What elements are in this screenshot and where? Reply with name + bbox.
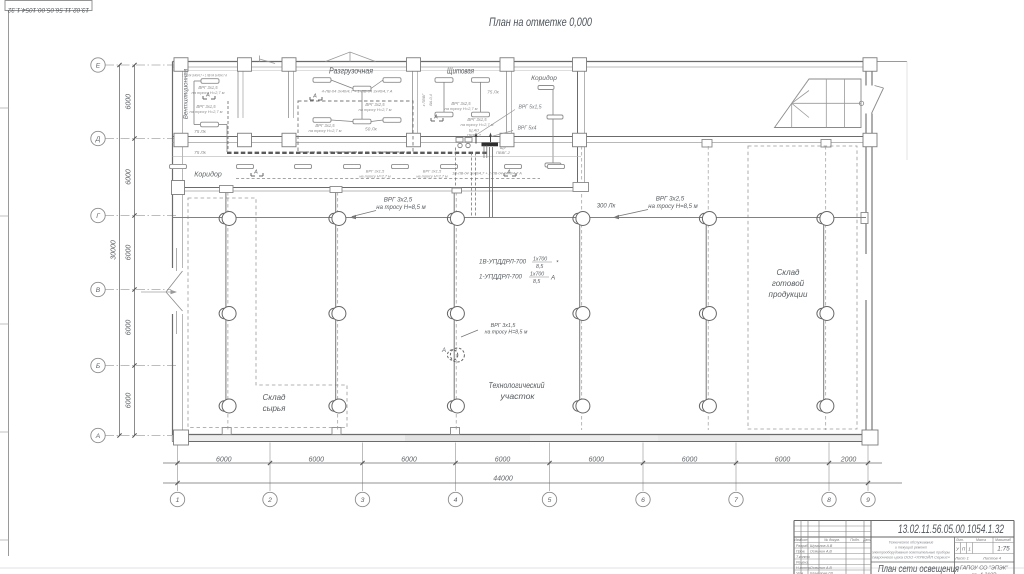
svg-text:А: А bbox=[95, 433, 101, 440]
svg-text:Масштаб: Масштаб bbox=[995, 538, 1011, 542]
svg-text:6000: 6000 bbox=[126, 393, 133, 409]
svg-text:на тросу Н=2,7 м: на тросу Н=2,7 м bbox=[190, 109, 223, 114]
svg-text:А: А bbox=[253, 170, 258, 176]
svg-text:продукции: продукции bbox=[769, 290, 808, 299]
svg-text:А: А bbox=[433, 115, 438, 121]
svg-text:6000: 6000 bbox=[308, 457, 324, 464]
svg-text:х ПВВГ: х ПВВГ bbox=[422, 93, 426, 108]
svg-text:8,5: 8,5 bbox=[536, 264, 543, 270]
svg-text:9: 9 bbox=[866, 497, 870, 504]
svg-text:Листов 4: Листов 4 bbox=[982, 556, 1002, 561]
svg-text:1:75: 1:75 bbox=[997, 546, 1010, 553]
svg-text:на тросу Н=8,5 м: на тросу Н=8,5 м bbox=[376, 205, 425, 211]
svg-text:ВРГ 5х4: ВРГ 5х4 bbox=[518, 126, 537, 132]
svg-text:75 Лк: 75 Лк bbox=[194, 150, 207, 155]
svg-text:1 ЛВ-04 3х40/4,7 + 1 ЛВ-04 3х4: 1 ЛВ-04 3х40/4,7 + 1 ЛВ-04 3х40/4,7 А bbox=[182, 73, 227, 78]
svg-text:План сети освещения: План сети освещения bbox=[878, 564, 960, 574]
svg-text:П: П bbox=[962, 547, 966, 552]
svg-text:ВРГ 5х1,5: ВРГ 5х1,5 bbox=[518, 105, 541, 111]
svg-text:13.02.11.56.05.00.1054.1.32: 13.02.11.56.05.00.1054.1.32 bbox=[7, 6, 89, 13]
svg-text:*: * bbox=[556, 260, 559, 267]
svg-text:Коридор: Коридор bbox=[194, 171, 222, 179]
svg-text:Масса: Масса bbox=[976, 538, 986, 542]
svg-text:на тросу Н=2,7 м: на тросу Н=2,7 м bbox=[192, 90, 225, 95]
svg-text:8,5: 8,5 bbox=[533, 279, 540, 285]
svg-text:Разгрузочная: Разгрузочная bbox=[329, 67, 374, 76]
svg-text:Лист: Лист bbox=[799, 538, 809, 542]
svg-text:Реценз.: Реценз. bbox=[796, 560, 809, 564]
svg-text:1х700: 1х700 bbox=[530, 272, 544, 278]
svg-text:Т.контр.: Т.контр. bbox=[796, 555, 811, 559]
svg-text:Шумилов А.В: Шумилов А.В bbox=[810, 544, 833, 548]
svg-text:ГАПОУ СО "ЭПЭК": ГАПОУ СО "ЭПЭК" bbox=[960, 566, 1009, 572]
svg-text:4-ЛВ-04 3х40/4,7 + 1-ЛВ-04 3х4: 4-ЛВ-04 3х40/4,7 + 1-ЛВ-04 3х40/4,7 А bbox=[322, 89, 393, 94]
svg-text:Б: Б bbox=[96, 363, 101, 370]
svg-text:сырья: сырья bbox=[263, 404, 287, 413]
svg-text:300 Лк: 300 Лк bbox=[597, 204, 617, 210]
svg-text:7: 7 bbox=[734, 497, 738, 504]
svg-text:№ докум.: № докум. bbox=[824, 538, 840, 542]
svg-text:6000: 6000 bbox=[126, 320, 133, 336]
svg-text:А: А bbox=[550, 275, 555, 282]
svg-text:6000: 6000 bbox=[495, 457, 511, 464]
svg-text:Лит.: Лит. bbox=[955, 538, 964, 542]
svg-text:Н.контр.: Н.контр. bbox=[796, 566, 811, 570]
svg-text:на тросу Н=2,7 м: на тросу Н=2,7 м bbox=[309, 128, 342, 133]
svg-text:Д: Д bbox=[95, 136, 101, 143]
svg-text:Технологический: Технологический bbox=[489, 381, 545, 390]
svg-text:Щитовая: Щитовая bbox=[447, 67, 475, 76]
svg-text:Разраб.: Разраб. bbox=[796, 544, 809, 548]
svg-text:4: 4 bbox=[454, 497, 458, 504]
svg-text:Склад: Склад bbox=[263, 393, 287, 402]
svg-text:6000: 6000 bbox=[216, 457, 232, 464]
svg-text:75 Лк: 75 Лк bbox=[194, 129, 207, 134]
svg-text:75 Лк: 75 Лк bbox=[487, 90, 500, 95]
svg-text:Осминин А.В: Осминин А.В bbox=[810, 566, 832, 570]
svg-text:Пров.: Пров. bbox=[796, 549, 805, 553]
svg-text:1-УПДДРЛ-700: 1-УПДДРЛ-700 bbox=[479, 274, 523, 281]
svg-text:2: 2 bbox=[267, 497, 272, 504]
svg-text:План на отметке 0,000: План на отметке 0,000 bbox=[489, 17, 592, 29]
svg-text:2000: 2000 bbox=[840, 457, 857, 464]
svg-text:ВРГ 3х1,5: ВРГ 3х1,5 bbox=[491, 323, 517, 329]
svg-text:Подп.: Подп. bbox=[850, 538, 860, 542]
svg-text:А: А bbox=[441, 348, 446, 354]
svg-text:ВРГ 3х2,5: ВРГ 3х2,5 bbox=[384, 197, 413, 204]
svg-text:сварочного цеха ООО «ЛУКОЙЛ Се: сварочного цеха ООО «ЛУКОЙЛ Сервис» bbox=[872, 556, 950, 560]
svg-text:на тросу Н=2,7 м: на тросу Н=2,7 м bbox=[359, 175, 391, 179]
svg-text:Склад: Склад bbox=[777, 268, 801, 277]
svg-text:6000: 6000 bbox=[401, 457, 417, 464]
svg-text:50 Лк: 50 Лк bbox=[365, 127, 378, 132]
svg-text:В: В bbox=[96, 287, 101, 294]
svg-text:ВРГ 3х1,5: ВРГ 3х1,5 bbox=[423, 169, 442, 174]
svg-text:Г: Г bbox=[96, 213, 100, 220]
svg-text:30000: 30000 bbox=[111, 240, 118, 260]
svg-text:Лист 1: Лист 1 bbox=[954, 556, 969, 561]
svg-text:1В-УПДДРЛ-700: 1В-УПДДРЛ-700 bbox=[479, 259, 527, 266]
svg-text:1х700: 1х700 bbox=[533, 257, 547, 263]
svg-text:Е: Е bbox=[96, 62, 101, 69]
svg-text:на тросу Н=2,7 м: на тросу Н=2,7 м bbox=[445, 106, 478, 111]
svg-text:1: 1 bbox=[968, 547, 971, 552]
svg-text:8: 8 bbox=[827, 497, 831, 504]
svg-text:готовой: готовой bbox=[772, 279, 805, 288]
svg-text:44000: 44000 bbox=[493, 476, 513, 483]
svg-text:6000: 6000 bbox=[682, 457, 698, 464]
svg-text:на тросу Н=2,7 м: на тросу Н=2,7 м bbox=[461, 122, 494, 127]
svg-text:на тросу Н=2,7 м: на тросу Н=2,7 м bbox=[359, 107, 392, 112]
svg-text:6000: 6000 bbox=[588, 457, 604, 464]
svg-text:на тросу Н=8,5 м: на тросу Н=8,5 м bbox=[648, 204, 697, 210]
svg-text:Коридор: Коридор bbox=[531, 74, 557, 82]
svg-text:6: 6 bbox=[641, 497, 645, 504]
svg-text:Осминин А.В: Осминин А.В bbox=[810, 549, 832, 553]
svg-text:У: У bbox=[956, 547, 960, 552]
svg-text:на тросу Н=8,5 м: на тросу Н=8,5 м bbox=[485, 330, 528, 336]
svg-text:13.02.11.56.05.00.1054.1.32: 13.02.11.56.05.00.1054.1.32 bbox=[898, 524, 1004, 536]
svg-text:6000: 6000 bbox=[775, 457, 791, 464]
svg-text:Дата: Дата bbox=[862, 538, 872, 542]
svg-text:1: 1 bbox=[176, 497, 180, 504]
svg-text:ПВВГ-2: ПВВГ-2 bbox=[496, 150, 511, 155]
svg-text:6000: 6000 bbox=[126, 245, 133, 261]
svg-text:ПВВГ-2: ПВВГ-2 bbox=[467, 133, 482, 138]
svg-text:6000: 6000 bbox=[126, 169, 133, 185]
svg-text:ВРГ 3х1,5: ВРГ 3х1,5 bbox=[366, 169, 385, 174]
svg-text:ВА-0,4: ВА-0,4 bbox=[429, 94, 433, 105]
svg-text:Техническое обслуживание: Техническое обслуживание bbox=[889, 541, 934, 545]
svg-text:А: А bbox=[312, 94, 317, 100]
svg-text:1В-ЛВ-04 3х40/4,7 + 2-ЛВ-04 3х: 1В-ЛВ-04 3х40/4,7 + 2-ЛВ-04 3х40/4,7 А bbox=[452, 172, 522, 176]
svg-text:ВРГ 3х2,5: ВРГ 3х2,5 bbox=[656, 196, 685, 203]
svg-text:5: 5 bbox=[548, 497, 552, 504]
svg-text:и текущий ремонт: и текущий ремонт bbox=[895, 546, 927, 550]
svg-text:электрооборудования осветитель: электрооборудования осветительные прибор… bbox=[872, 551, 950, 555]
svg-text:на тросу Н=2,7 м: на тросу Н=2,7 м bbox=[416, 175, 448, 179]
svg-text:3: 3 bbox=[361, 497, 365, 504]
svg-text:участок: участок bbox=[499, 392, 535, 401]
svg-text:6000: 6000 bbox=[126, 94, 133, 110]
